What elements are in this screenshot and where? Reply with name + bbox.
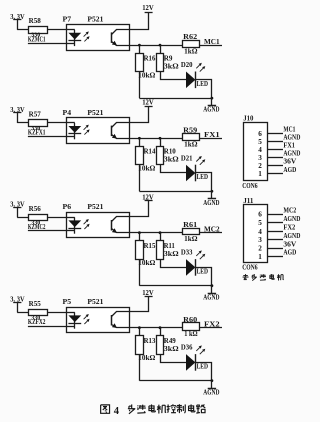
svg-text:R55: R55 [29, 300, 42, 308]
junction cathode/AGND rail [211, 284, 214, 287]
svg-text:10kΩ: 10kΩ [138, 72, 156, 80]
svg-text:KZFX2: KZFX2 [28, 319, 46, 326]
svg-text:AGND: AGND [283, 135, 300, 142]
svg-text:3kΩ: 3kΩ [164, 345, 179, 353]
svg-text:36V: 36V [283, 159, 296, 166]
junction cathode/AGND rail [211, 379, 214, 382]
wire R59 to FX1 [200, 138, 222, 140]
resistor R59 1k [183, 126, 200, 148]
label 去步进电机 (to stepper motor) [243, 274, 284, 281]
svg-text:R62: R62 [183, 33, 198, 41]
svg-text:R10: R10 [164, 148, 176, 156]
wire collector to 12V [130, 107, 149, 123]
svg-text:D21: D21 [181, 154, 193, 162]
junction R11 top [159, 231, 162, 234]
svg-text:6: 6 [258, 211, 262, 219]
wire emitter rail [129, 327, 183, 329]
opto phototransistor [112, 123, 130, 139]
svg-text:P521: P521 [87, 109, 104, 117]
J11 pin 1 (AGD) [258, 250, 296, 261]
svg-text:D33: D33 [181, 249, 193, 257]
svg-text:R60: R60 [183, 316, 198, 324]
connector J11 [243, 197, 267, 263]
caption 图4 步进电机控制电路 [101, 404, 206, 417]
wire D20 cathode to AGND [196, 80, 212, 99]
wire AGND rail (bottom) [139, 191, 212, 193]
svg-text:6: 6 [258, 130, 262, 138]
wire collector to 12V [130, 201, 149, 217]
junction cathode/AGND rail [211, 190, 214, 193]
wire KZMC2 to P6 cathode [28, 230, 67, 232]
resistor R10 3k [157, 138, 180, 164]
opto internal LED [67, 123, 82, 140]
svg-text:FX2: FX2 [283, 225, 295, 232]
resistor R56 330 [29, 205, 48, 227]
svg-text:3kΩ: 3kΩ [164, 63, 179, 71]
junction R16 top [138, 44, 141, 47]
svg-text:R58: R58 [29, 17, 42, 25]
wire R-top to AGND rail [139, 165, 141, 192]
svg-text:R59: R59 [183, 126, 198, 134]
J10 pin 4 (FX1) [258, 143, 295, 154]
resistor R61 1k [183, 221, 200, 243]
junction R13 top [138, 326, 141, 329]
LED D21 [181, 154, 208, 181]
opto light arrows [84, 31, 90, 41]
wire KZMC1 to P7 cathode [28, 43, 67, 45]
svg-text:12V: 12V [142, 288, 154, 297]
wire R9 to D20 anode [161, 72, 187, 80]
wire R62 to MC1 [200, 45, 222, 47]
power 12V (row 1) [142, 3, 154, 13]
junction R9 top [159, 44, 162, 47]
connector J10 [243, 114, 267, 180]
svg-text:J10: J10 [243, 114, 254, 122]
optocoupler P4 P521 [63, 109, 130, 144]
svg-text:AGD: AGD [283, 250, 296, 257]
svg-text:5: 5 [258, 138, 262, 146]
opto light arrows [84, 219, 90, 229]
svg-text:P4: P4 [63, 109, 72, 117]
svg-text:AGND: AGND [283, 151, 300, 158]
svg-text:LED: LED [197, 268, 208, 276]
resistor R16 10k [136, 45, 156, 79]
wire AGND rail (bottom) [139, 380, 212, 382]
wire R-top to AGND rail [139, 354, 141, 381]
svg-text:R57: R57 [29, 110, 42, 118]
svg-text:R13: R13 [144, 337, 156, 345]
J10 pin 5 (AGND) [258, 135, 300, 146]
svg-text:R56: R56 [29, 205, 42, 213]
resistor R13 10k [136, 328, 156, 362]
J11 pin 3 (AGND) [258, 233, 300, 244]
wire KZFX1 to P4 cathode [28, 136, 67, 138]
power 12V (row 2) [142, 98, 154, 107]
svg-text:3kΩ: 3kΩ [164, 156, 179, 164]
J10 pin 6 (MC1) [258, 127, 296, 138]
wire AGND rail (bottom) [139, 98, 212, 100]
wire collector to 12V [130, 13, 149, 30]
svg-text:1kΩ: 1kΩ [184, 141, 198, 149]
svg-text:5: 5 [258, 219, 262, 227]
svg-text:FX1: FX1 [283, 143, 295, 150]
resistor R49 3k [157, 328, 180, 355]
svg-text:3: 3 [258, 154, 262, 162]
svg-text:CON6: CON6 [242, 265, 258, 272]
junction R15 top [138, 231, 141, 234]
svg-text:3kΩ: 3kΩ [164, 250, 179, 258]
wire 3.3V to P7 anode [17, 29, 66, 31]
svg-text:3: 3 [258, 236, 262, 244]
wire KZFX2 to P5 cathode [28, 326, 67, 328]
svg-text:AGD: AGD [283, 167, 296, 174]
wire D36 cathode to AGND [196, 363, 212, 381]
opto internal LED [67, 217, 82, 233]
wire 3.3V to P4 anode [17, 122, 66, 124]
svg-text:12V: 12V [142, 3, 154, 12]
wire R60 to FX2 [200, 327, 222, 329]
resistor R62 1k [183, 33, 200, 55]
wire D21 cathode to AGND [196, 173, 212, 192]
svg-text:1: 1 [258, 170, 262, 178]
svg-text:KZMC1: KZMC1 [28, 37, 46, 44]
svg-text:R14: R14 [144, 148, 156, 156]
svg-text:4: 4 [258, 228, 262, 236]
opto light arrows [84, 314, 90, 324]
svg-text:36V: 36V [283, 241, 296, 248]
wire emitter rail [129, 138, 183, 140]
svg-text:P6: P6 [63, 203, 72, 211]
svg-text:1 kΩ: 1 kΩ [184, 330, 198, 338]
svg-text:AGND: AGND [283, 233, 300, 240]
svg-text:CON6: CON6 [242, 183, 258, 190]
svg-text:P7: P7 [63, 16, 72, 24]
opto phototransistor [112, 312, 130, 329]
wire R11 to D33 anode [161, 260, 187, 268]
wire emitter rail [129, 232, 183, 234]
svg-text:2: 2 [258, 245, 262, 253]
svg-text:R49: R49 [164, 337, 176, 345]
LED D33 [181, 249, 208, 276]
opto phototransistor [112, 30, 130, 46]
svg-text:FX1: FX1 [204, 131, 220, 139]
svg-text:AGND: AGND [283, 216, 300, 223]
junction R49 top [159, 326, 162, 329]
svg-text:AGND: AGND [203, 107, 219, 114]
svg-text:LED: LED [197, 173, 208, 181]
resistor R15 10k [136, 233, 156, 267]
wire D33 cathode to AGND [196, 268, 212, 286]
svg-text:LED: LED [197, 363, 208, 371]
svg-text:AGND: AGND [203, 294, 219, 301]
svg-text:12V: 12V [142, 98, 154, 107]
svg-text:MC1: MC1 [204, 38, 220, 46]
svg-text:J11: J11 [243, 197, 254, 205]
svg-text:4: 4 [114, 406, 120, 417]
optocoupler P6 P521 [63, 203, 130, 237]
svg-text:1kΩ: 1kΩ [184, 235, 198, 243]
ground AGND (row 3) [203, 286, 219, 302]
resistor R11 3k [157, 233, 180, 260]
J10 pin 1 (AGD) [258, 167, 296, 178]
LED D20 [181, 61, 208, 88]
svg-text:P5: P5 [63, 298, 72, 306]
svg-text:MC2: MC2 [204, 226, 220, 234]
wire 3.3V to P6 anode [17, 217, 66, 219]
wire R61 to MC2 [200, 232, 222, 234]
resistor R9 3k [157, 45, 180, 71]
wire collector to 12V [130, 297, 149, 312]
svg-text:KZFX1: KZFX1 [28, 130, 46, 137]
svg-text:4: 4 [258, 146, 262, 154]
power 3.3V (row 4) [10, 295, 25, 312]
J11 pin 5 (AGND) [258, 216, 300, 227]
J10 pin 3 (AGND) [258, 151, 300, 162]
svg-text:D20: D20 [181, 61, 193, 69]
resistor R14 10k [136, 138, 156, 172]
svg-text:FX2: FX2 [204, 321, 220, 329]
svg-text:D36: D36 [181, 344, 193, 352]
J11 pin 2 (36V) [258, 241, 296, 252]
svg-text:1: 1 [258, 253, 262, 261]
wire R-top to AGND rail [139, 72, 141, 99]
ground AGND (row 1) [203, 98, 219, 114]
svg-text:10kΩ: 10kΩ [138, 165, 156, 173]
J11 pin 4 (FX2) [258, 225, 296, 236]
power 3.3V (row 1) [10, 13, 25, 30]
opto internal LED [67, 312, 82, 328]
ground AGND (row 4) [203, 381, 219, 397]
optocoupler P7 P521 [63, 16, 130, 51]
svg-text:AGND: AGND [203, 389, 219, 396]
wire emitter rail [129, 45, 183, 47]
opto phototransistor [112, 217, 130, 234]
resistor R60 1k [183, 316, 200, 338]
svg-text:R61: R61 [183, 221, 198, 229]
svg-text:LED: LED [197, 80, 208, 88]
svg-text:R9: R9 [164, 55, 173, 63]
svg-text:P521: P521 [87, 298, 104, 306]
opto light arrows [84, 125, 90, 135]
power 3.3V (row 3) [10, 200, 25, 217]
optocoupler P5 P521 [63, 298, 130, 332]
wire R49 to D36 anode [161, 355, 187, 363]
wire R-top to AGND rail [139, 259, 141, 286]
junction cathode/AGND rail [211, 97, 214, 100]
wire 3.3V to P5 anode [17, 312, 66, 314]
svg-text:P521: P521 [87, 203, 104, 211]
resistor R57 330 [29, 110, 48, 131]
LED D36 [181, 344, 208, 371]
power 12V (row 3) [142, 192, 154, 201]
svg-text:R15: R15 [144, 242, 156, 250]
wire R10 to D21 anode [161, 165, 187, 173]
svg-text:R11: R11 [164, 242, 175, 250]
ground AGND (row 2) [203, 191, 219, 207]
svg-text:MC2: MC2 [283, 207, 296, 214]
junction R10 top [159, 137, 162, 140]
power 3.3V (row 2) [10, 106, 25, 123]
svg-text:MC1: MC1 [283, 127, 295, 134]
junction R14 top [138, 137, 141, 140]
svg-text:10kΩ: 10kΩ [138, 259, 156, 267]
J10 pin 2 (36V) [258, 159, 296, 170]
svg-text:10kΩ: 10kΩ [138, 354, 156, 362]
J11 pin 6 (MC2) [258, 207, 297, 218]
svg-text:R16: R16 [144, 55, 156, 63]
resistor R55 330 [29, 300, 48, 322]
wire AGND rail (bottom) [139, 285, 212, 287]
svg-text:1kΩ: 1kΩ [184, 48, 198, 56]
svg-text:P521: P521 [87, 16, 104, 24]
svg-text:AGND: AGND [203, 200, 219, 207]
power 12V (row 4) [142, 288, 154, 297]
opto internal LED [67, 30, 82, 47]
resistor R58 330 [29, 17, 48, 39]
svg-text:2: 2 [258, 162, 262, 170]
